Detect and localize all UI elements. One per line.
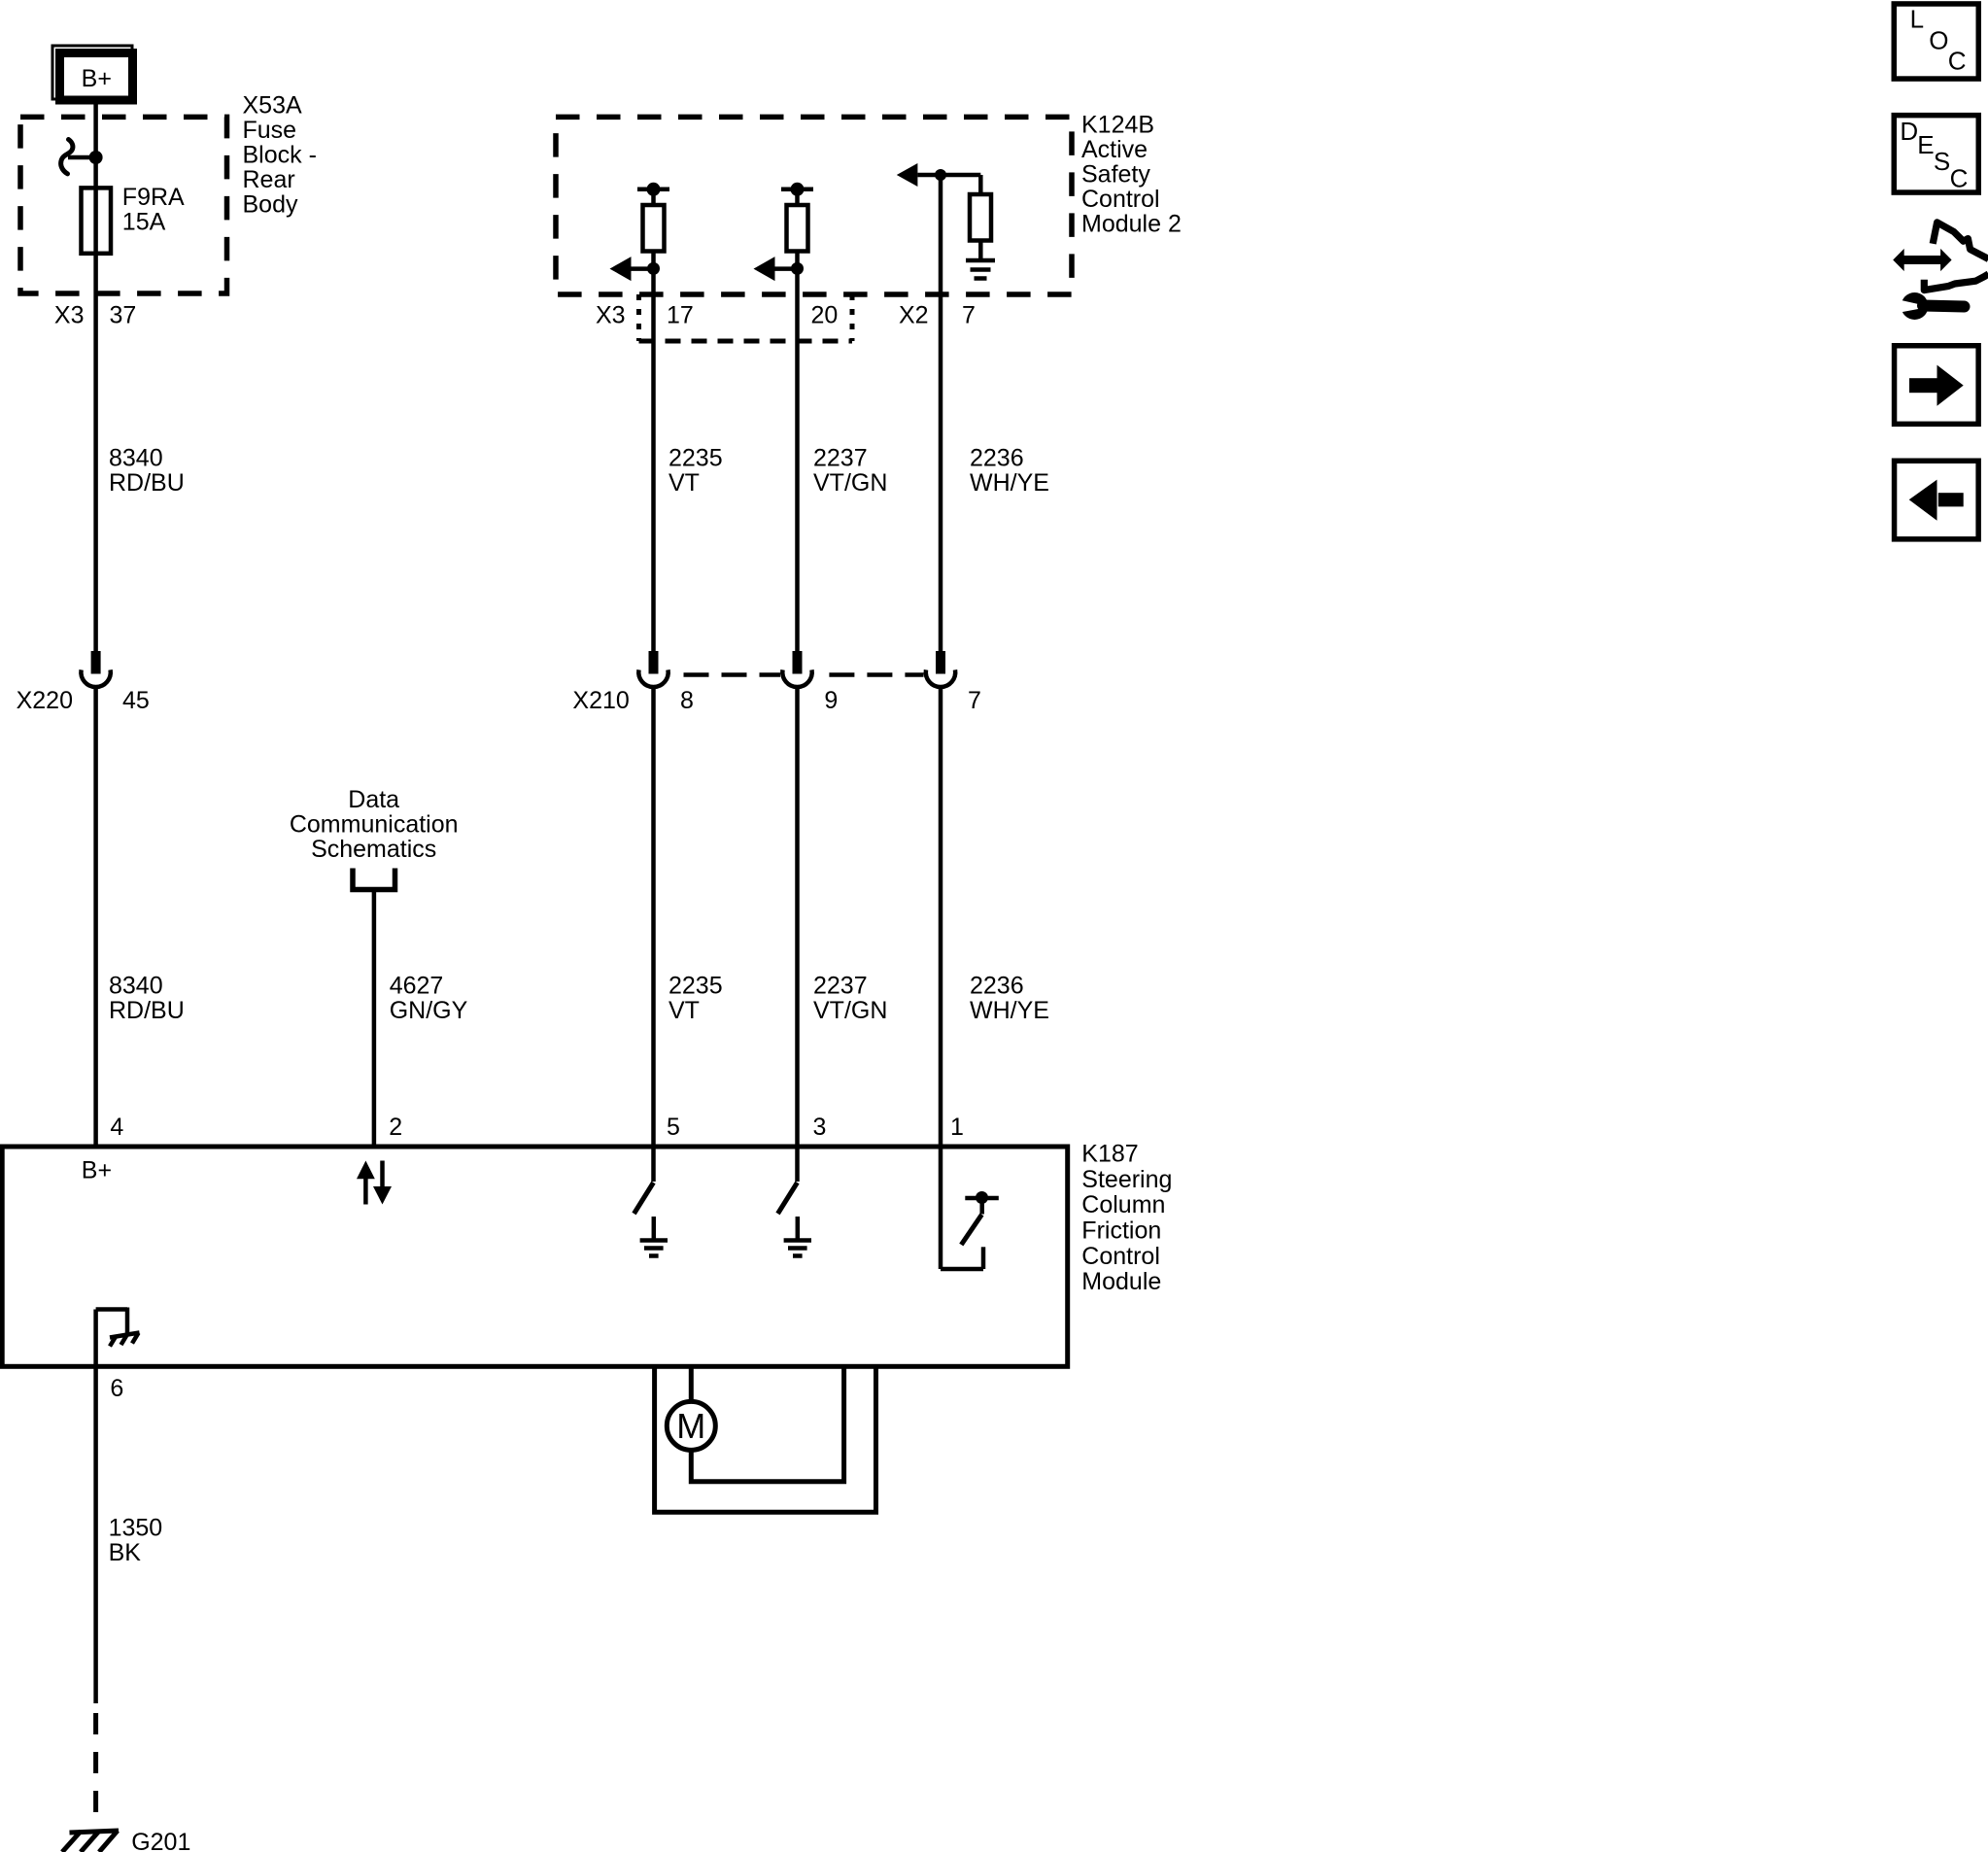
svg-text:L: L: [1910, 5, 1924, 34]
resistor R1 (pin 17 pull-up): [637, 183, 669, 292]
switch (pin 3 low-side): [778, 1148, 798, 1214]
wire 2237 upper segment: [795, 292, 800, 651]
dashed tie line X210: [684, 672, 924, 677]
svg-text:4627: 4627: [390, 973, 444, 1000]
resistor R2 (pin 20 pull-up): [781, 183, 813, 292]
svg-text:K124B: K124B: [1081, 112, 1154, 139]
svg-text:Communication: Communication: [290, 811, 459, 839]
svg-text:Schematics: Schematics: [311, 836, 436, 863]
svg-text:2235: 2235: [668, 445, 723, 472]
svg-text:VT: VT: [668, 469, 700, 497]
label 2236 WH/YE (upper): [970, 445, 1049, 497]
svg-text:D: D: [1900, 117, 1918, 146]
pin label 6: [110, 1375, 123, 1402]
svg-text:K187: K187: [1081, 1141, 1138, 1168]
dotted connector sub-box X3 (pins 17,20): [639, 294, 853, 341]
svg-text:B+: B+: [82, 65, 112, 92]
serial data up/down arrows: [357, 1161, 392, 1205]
connector X220 pin 45: [81, 651, 110, 687]
switch (pin 5 low-side): [634, 1148, 654, 1214]
wire 2236 lower segment: [939, 687, 943, 1148]
svg-text:15A: 15A: [122, 209, 166, 236]
wire from B+ to fuse block: [93, 105, 98, 652]
signal arrow at pin 17 node: [610, 257, 661, 281]
svg-text:GN/GY: GN/GY: [390, 997, 468, 1024]
signal arrow at pin 20 node: [754, 257, 805, 281]
svg-text:Module: Module: [1081, 1268, 1161, 1295]
label Data Communication Schematics: [290, 786, 459, 863]
dashed wire to G201: [93, 1703, 98, 1832]
label 2237 VT/GN (upper): [813, 445, 887, 497]
svg-text:5: 5: [667, 1114, 680, 1141]
resistor R3 (pin 7 pull-down to ground): [897, 163, 991, 260]
svg-text:O: O: [1929, 26, 1948, 55]
svg-text:37: 37: [110, 302, 137, 329]
svg-text:BK: BK: [109, 1539, 142, 1566]
off-page bracket (data link): [353, 869, 395, 890]
svg-text:Active: Active: [1081, 136, 1148, 163]
LOC legend box: [1894, 4, 1978, 79]
svg-text:B+: B+: [82, 1157, 112, 1184]
svg-text:Steering: Steering: [1081, 1166, 1172, 1193]
svg-text:RD/BU: RD/BU: [109, 997, 185, 1024]
label B+ inside K187: [82, 1157, 112, 1184]
svg-text:8340: 8340: [109, 445, 163, 472]
svg-text:Control: Control: [1081, 186, 1160, 213]
svg-text:8: 8: [680, 687, 694, 714]
svg-text:X220: X220: [17, 687, 73, 714]
vehicle diagnostic icon: [1893, 223, 1988, 320]
svg-text:2: 2: [389, 1114, 402, 1141]
svg-text:Control: Control: [1081, 1243, 1160, 1270]
module K187 box: [2, 1147, 1068, 1366]
svg-text:45: 45: [122, 687, 150, 714]
svg-text:3: 3: [813, 1114, 827, 1141]
svg-text:2237: 2237: [813, 973, 868, 1000]
wire 8340 lower segment: [93, 687, 98, 1147]
svg-text:4: 4: [110, 1114, 123, 1141]
fuse F9RA 15A: [82, 184, 186, 254]
svg-text:VT: VT: [668, 997, 700, 1024]
ground G201: [62, 1829, 190, 1852]
label 2236 WH/YE (lower): [970, 973, 1049, 1024]
label 2235 VT (lower): [668, 973, 723, 1024]
K124B dashed box: [556, 117, 1072, 294]
label 8340 RD/BU (upper): [109, 445, 185, 497]
wire 2237 lower segment: [795, 687, 800, 1148]
svg-text:C: C: [1948, 46, 1967, 75]
forward reference arrow box: [1895, 346, 1979, 425]
svg-text:2236: 2236: [970, 445, 1024, 472]
svg-text:Safety: Safety: [1081, 161, 1150, 189]
ground (pin 5 switch): [640, 1217, 668, 1256]
label K187 Steering Column Friction Control Module: [1081, 1141, 1172, 1296]
svg-text:8340: 8340: [109, 973, 163, 1000]
svg-text:VT/GN: VT/GN: [813, 997, 887, 1024]
wire 2235 upper segment: [651, 292, 656, 651]
connector X210 pin 7: [926, 651, 955, 687]
motor M with loop wiring: [655, 1366, 876, 1512]
svg-text:Rear: Rear: [243, 166, 295, 193]
svg-text:X3: X3: [596, 302, 626, 329]
fuse block X53A dashed box: [20, 117, 227, 293]
ground (internal, K124B): [966, 260, 995, 279]
label 8340 RD/BU (lower): [109, 973, 185, 1024]
label 2235 VT (upper): [668, 445, 723, 497]
DESC legend box: [1894, 116, 1978, 193]
svg-text:S: S: [1934, 147, 1950, 176]
wire 1350 BK: [93, 1366, 98, 1703]
battery B+ symbol: [52, 46, 133, 100]
wire pin 7 vertical inside K124B: [939, 175, 943, 651]
label 1350 BK: [109, 1515, 163, 1567]
label X53A Fuse Block - Rear Body: [243, 92, 317, 219]
connector X210 pin 9: [782, 651, 811, 687]
svg-text:X53A: X53A: [243, 92, 302, 120]
ground (pin 3 switch): [784, 1217, 811, 1256]
svg-text:G201: G201: [131, 1829, 190, 1852]
connector X210 pin 8: [638, 651, 668, 687]
pin labels X3 17 20 X2 7 (K124B): [596, 302, 976, 329]
svg-text:M: M: [676, 1406, 705, 1446]
label K124B Active Safety Control Module 2: [1081, 112, 1182, 238]
chassis ground branch (pin 6 inside K187): [96, 1308, 140, 1367]
bus terminal clip: [61, 140, 96, 174]
svg-text:Friction: Friction: [1081, 1218, 1161, 1245]
svg-text:C: C: [1950, 164, 1969, 193]
svg-text:2237: 2237: [813, 445, 868, 472]
svg-text:WH/YE: WH/YE: [970, 997, 1049, 1024]
svg-text:WH/YE: WH/YE: [970, 469, 1049, 497]
svg-text:RD/BU: RD/BU: [109, 469, 185, 497]
svg-text:2236: 2236: [970, 973, 1024, 1000]
connector row labels X220 45 X210 8 9 7: [17, 687, 981, 714]
wire 4627 serial data: [372, 890, 377, 1149]
svg-text:17: 17: [667, 302, 694, 329]
svg-text:E: E: [1917, 130, 1934, 159]
svg-text:1350: 1350: [109, 1515, 163, 1542]
wire 2235 lower segment: [651, 687, 656, 1148]
svg-text:1: 1: [950, 1114, 964, 1141]
svg-text:Column: Column: [1081, 1191, 1165, 1218]
svg-text:20: 20: [811, 302, 839, 329]
svg-text:9: 9: [824, 687, 838, 714]
label 2237 VT/GN (lower): [813, 973, 887, 1024]
svg-text:X2: X2: [899, 302, 929, 329]
junction node on B+ feed: [89, 151, 103, 164]
svg-text:VT/GN: VT/GN: [813, 469, 887, 497]
backward reference arrow box: [1895, 461, 1979, 539]
label 4627 GN/GY: [390, 973, 468, 1024]
svg-text:6: 6: [110, 1375, 123, 1402]
svg-text:7: 7: [968, 687, 981, 714]
svg-text:Module 2: Module 2: [1081, 211, 1182, 238]
pin label X3 37 (fuse block): [54, 302, 136, 329]
pin numbers 4 2 5 3 1 (K187 top): [110, 1114, 964, 1141]
svg-text:X210: X210: [572, 687, 629, 714]
svg-text:7: 7: [962, 302, 976, 329]
svg-text:Body: Body: [243, 191, 298, 219]
svg-text:X3: X3: [54, 302, 85, 329]
svg-text:F9RA: F9RA: [122, 184, 185, 211]
svg-text:Block -: Block -: [243, 142, 317, 169]
svg-text:Fuse: Fuse: [243, 117, 297, 144]
switch (pin 1 sense): [941, 1148, 999, 1269]
svg-text:Data: Data: [348, 786, 399, 813]
svg-text:2235: 2235: [668, 973, 723, 1000]
